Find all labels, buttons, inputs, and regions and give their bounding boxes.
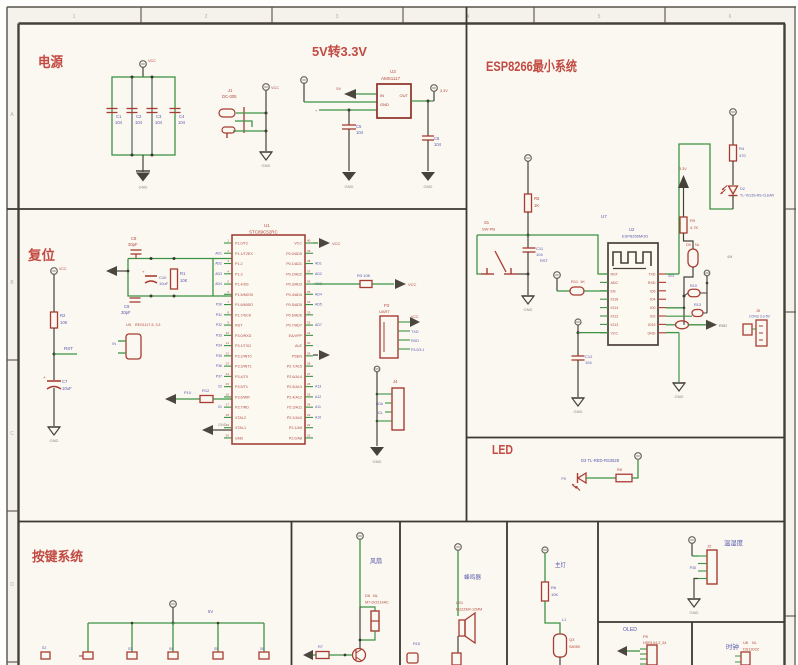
svg-text:R2: R2 xyxy=(60,313,66,318)
svg-text:C6: C6 xyxy=(434,136,440,141)
svg-text:4.7K: 4.7K xyxy=(690,225,699,230)
svg-text:P0.7/AD7: P0.7/AD7 xyxy=(286,324,302,328)
section divider vertical x=400 (fan/buzzer split) xyxy=(399,522,401,665)
svg-text:S2: S2 xyxy=(42,646,46,650)
svg-text:P2.4/A12: P2.4/A12 xyxy=(287,395,302,399)
svg-text:J1: J1 xyxy=(228,88,233,93)
power port VCC ESP reset pullup xyxy=(525,155,532,194)
svg-text:P1.0/T2: P1.0/T2 xyxy=(235,242,248,246)
svg-text:31: 31 xyxy=(307,331,311,335)
transistor U5 small part xyxy=(112,322,160,359)
buzzer LS1 xyxy=(459,613,475,643)
svg-text:17: 17 xyxy=(226,403,230,407)
wire regulator input net xyxy=(304,101,377,103)
wire J2 pin4 to ground xyxy=(694,579,698,599)
svg-text:按键系统: 按键系统 xyxy=(32,549,83,564)
wire capacitor bank to ground xyxy=(142,155,144,172)
svg-text:A12: A12 xyxy=(315,395,321,399)
wire buzzer to transistor xyxy=(457,636,459,653)
power port VCC small mid xyxy=(704,270,710,313)
svg-text:+: + xyxy=(43,376,46,381)
capacitor C5 xyxy=(342,124,364,135)
wire DC jack vertical to ground xyxy=(265,112,268,152)
svg-text:30pF: 30pF xyxy=(121,310,131,315)
svg-text:AD4: AD4 xyxy=(315,292,322,296)
svg-text:U6: U6 xyxy=(743,640,749,645)
svg-text:104: 104 xyxy=(356,130,364,135)
wire key drop 5 xyxy=(263,623,265,652)
svg-text:R13: R13 xyxy=(694,303,701,307)
svg-text:20: 20 xyxy=(226,433,230,437)
svg-text:SDA: SDA xyxy=(376,402,384,406)
svg-text:C1: C1 xyxy=(116,114,122,119)
svg-text:DS1302Z: DS1302Z xyxy=(743,648,760,652)
switch S4 xyxy=(168,647,178,659)
svg-text:AD4: AD4 xyxy=(215,282,222,286)
svg-text:蜂鸣器: 蜂鸣器 xyxy=(464,573,481,581)
svg-text:C11: C11 xyxy=(536,246,544,251)
svg-text:5V: 5V xyxy=(336,87,341,91)
connector P3 UART header xyxy=(379,303,410,358)
svg-text:D: D xyxy=(10,582,14,588)
ground under J4 xyxy=(370,447,384,464)
power port VCC at DC jack xyxy=(263,84,280,113)
svg-text:L1: L1 xyxy=(562,618,566,622)
svg-text:VCC: VCC xyxy=(59,267,67,271)
svg-text:NL: NL xyxy=(752,641,757,645)
ESP module right pin stubs xyxy=(658,274,674,333)
svg-text:C2: C2 xyxy=(136,114,142,119)
wire C5 to ground xyxy=(348,129,350,171)
svg-text:24: 24 xyxy=(307,403,311,407)
resistor R12 xyxy=(200,388,232,403)
svg-text:U5: U5 xyxy=(126,322,132,327)
svg-text:P37: P37 xyxy=(216,374,222,378)
connector J5 power select xyxy=(743,308,771,346)
wire key drop 3 xyxy=(172,623,174,652)
ground under DC jack xyxy=(260,152,272,168)
svg-text:P2.3/A11: P2.3/A11 xyxy=(287,406,302,410)
svg-text:复位: 复位 xyxy=(27,247,55,263)
power port VCC buzzer xyxy=(455,544,462,616)
power flag VCC reset chain xyxy=(51,267,67,312)
wire capacitor C6 branch xyxy=(427,101,429,136)
resistor R8 xyxy=(616,468,632,482)
svg-text:GND: GND xyxy=(345,184,354,189)
wire EN net to ESP module xyxy=(477,235,608,274)
ground under C12 xyxy=(572,398,584,414)
svg-text:1K: 1K xyxy=(534,203,539,208)
svg-text:P0.4/AD4: P0.4/AD4 xyxy=(286,293,302,297)
capacitor C3 xyxy=(147,109,163,126)
svg-text:P0.0/AD0: P0.0/AD0 xyxy=(286,252,302,256)
svg-text:15: 15 xyxy=(226,382,230,386)
svg-text:P2.2/A10: P2.2/A10 xyxy=(287,416,302,420)
svg-text:AD5: AD5 xyxy=(315,303,322,307)
resistor R11 xyxy=(570,279,585,295)
svg-text:P32: P32 xyxy=(216,323,222,327)
svg-text:VCC: VCC xyxy=(294,242,302,246)
svg-text:D6: D6 xyxy=(365,593,371,598)
svg-text:104: 104 xyxy=(178,120,186,125)
svg-text:P1.3: P1.3 xyxy=(235,272,243,276)
svg-text:P1.4/SS: P1.4/SS xyxy=(235,283,249,287)
wire DC jack pin 1 xyxy=(236,112,266,114)
svg-text:R7: R7 xyxy=(318,645,323,649)
svg-text:S5: S5 xyxy=(214,647,218,651)
capacitor C7 electrolytic xyxy=(43,354,72,391)
svg-text:IN: IN xyxy=(112,342,116,346)
wire ESP GND row to ground xyxy=(666,333,679,382)
svg-text:12: 12 xyxy=(226,351,230,355)
svg-text:U2: U2 xyxy=(629,227,635,232)
svg-text:J4: J4 xyxy=(393,379,398,384)
svg-text:P34: P34 xyxy=(216,344,222,348)
svg-text:AD2: AD2 xyxy=(215,262,222,266)
wire fan vertical xyxy=(359,607,362,648)
ground under C6 xyxy=(421,172,435,189)
capacitor C1 xyxy=(107,109,123,126)
wire LED D2 to staircase net xyxy=(732,196,734,210)
svg-text:TL-YEL5S-RS-CLEAR: TL-YEL5S-RS-CLEAR xyxy=(740,194,774,198)
wire R11 to ESP IO0 xyxy=(584,290,608,292)
svg-text:13: 13 xyxy=(226,362,230,366)
wire regulator output xyxy=(411,100,434,103)
wire R2 to node RST xyxy=(53,328,56,356)
wire loop to chip RST pin xyxy=(213,295,232,297)
svg-text:C3: C3 xyxy=(156,114,162,119)
connector P3 net labels xyxy=(411,330,424,352)
svg-text:P1.5/MOSI: P1.5/MOSI xyxy=(235,293,253,297)
svg-text:36: 36 xyxy=(307,280,311,284)
wire VCC branch down to C12 xyxy=(577,333,579,356)
section divider vertical x=598 (lamp/DHT split) xyxy=(597,522,599,665)
svg-text:P3.1/TXD: P3.1/TXD xyxy=(235,344,251,348)
section divider horizontal y=209 (power/reset split) xyxy=(7,208,467,210)
power port 3.3V arrow xyxy=(678,167,689,217)
svg-text:10K: 10K xyxy=(60,320,68,325)
section divider vertical x=291 (keys/fan split) xyxy=(291,522,293,665)
svg-text:AMS1117: AMS1117 xyxy=(381,76,401,81)
svg-text:34: 34 xyxy=(307,300,311,304)
svg-text:风扇: 风扇 xyxy=(370,556,382,565)
svg-text:21: 21 xyxy=(307,433,311,437)
connector J4 ISP header xyxy=(376,379,404,430)
svg-text:BUZZER-12MM: BUZZER-12MM xyxy=(456,608,482,612)
svg-text:C8: C8 xyxy=(131,236,137,241)
svg-text:R3 10K: R3 10K xyxy=(357,273,371,278)
svg-text:S4: S4 xyxy=(169,647,173,651)
section divider vertical x=692 (OLED/clock split) xyxy=(691,622,693,665)
svg-text:RST: RST xyxy=(611,273,619,277)
svg-text:P1.6/MISO: P1.6/MISO xyxy=(235,303,253,307)
wire key drop 1 xyxy=(87,623,89,652)
svg-text:5: 5 xyxy=(598,14,601,20)
wire loop to chip XTAL pin xyxy=(213,258,232,260)
ground under capacitor bank xyxy=(136,171,150,190)
wire R3 to VCC arrow xyxy=(372,279,417,289)
svg-text:IO14: IO14 xyxy=(611,306,619,310)
ground under ESP right xyxy=(673,383,685,399)
svg-text:XTAL1: XTAL1 xyxy=(235,426,246,430)
svg-text:GND: GND xyxy=(424,184,433,189)
svg-text:R4: R4 xyxy=(739,146,745,151)
svg-text:ALE: ALE xyxy=(295,344,303,348)
transistor Q3 lamp driver xyxy=(554,634,580,665)
svg-text:主灯: 主灯 xyxy=(555,561,566,569)
svg-text:3.3V: 3.3V xyxy=(440,89,448,93)
svg-text:1: 1 xyxy=(73,14,76,20)
svg-text:AD3: AD3 xyxy=(215,272,222,276)
svg-text:RXD: RXD xyxy=(411,339,419,343)
svg-text:11: 11 xyxy=(226,341,229,345)
wire LED D3 to resistor R8 xyxy=(586,477,616,479)
section divider horizontal y=622 (DHT/OLED split) xyxy=(598,621,785,623)
svg-text:39: 39 xyxy=(307,249,311,253)
svg-text:IO4: IO4 xyxy=(650,298,656,302)
capacitor C6 xyxy=(422,136,442,147)
wire R5 to EN net xyxy=(527,212,530,237)
resistor R13 xyxy=(666,303,707,317)
port arrow ALE xyxy=(313,350,330,360)
capacitor C10 electrolytic xyxy=(142,269,169,286)
svg-text:35: 35 xyxy=(307,290,311,294)
svg-text:ESP8266MOD: ESP8266MOD xyxy=(622,234,648,239)
resistor R5 xyxy=(525,194,541,212)
svg-text:GND: GND xyxy=(524,307,533,312)
right ruler tick marks xyxy=(785,209,796,616)
svg-text:C9: C9 xyxy=(124,304,130,309)
power port VCC LED section xyxy=(635,453,642,460)
power port VCC GPIO pullup xyxy=(554,272,570,291)
svg-text:S8050: S8050 xyxy=(569,645,580,649)
svg-text:VCC: VCC xyxy=(271,86,279,90)
svg-text:VCC: VCC xyxy=(408,282,417,287)
svg-text:P3.0/3.1: P3.0/3.1 xyxy=(411,348,424,352)
svg-text:R15: R15 xyxy=(413,642,420,646)
svg-text:GND: GND xyxy=(50,438,59,443)
svg-text:X1: X1 xyxy=(218,405,222,409)
svg-text:IO15: IO15 xyxy=(648,323,656,327)
svg-text:ESP8266最小系统: ESP8266最小系统 xyxy=(486,58,577,74)
resistor R4 xyxy=(730,145,747,161)
svg-text:VCC: VCC xyxy=(332,241,341,246)
svg-text:P3.3/INT1: P3.3/INT1 xyxy=(235,365,252,369)
svg-text:P10: P10 xyxy=(184,390,192,395)
switch S7 extra xyxy=(41,646,50,659)
svg-text:AD1: AD1 xyxy=(215,252,222,256)
wire C7 to ground xyxy=(53,388,55,426)
wire EA pin to resistor R3 xyxy=(313,283,360,285)
svg-text:LED: LED xyxy=(492,443,513,457)
svg-text:P0.5/AD5: P0.5/AD5 xyxy=(286,303,302,307)
capacitor C8 30pF xyxy=(128,236,142,259)
wire R6 to Q3 xyxy=(545,601,566,634)
switch S1 reset button xyxy=(481,220,517,274)
wire R9 to diode D5 xyxy=(684,233,694,249)
svg-text:LS1: LS1 xyxy=(456,600,464,605)
svg-text:P1.1/T2EX: P1.1/T2EX xyxy=(235,252,253,256)
wire OLED data with port arrow xyxy=(617,646,640,656)
svg-text:CON3 3.3-5V: CON3 3.3-5V xyxy=(749,315,771,319)
svg-text:2: 2 xyxy=(205,14,208,20)
svg-text:R9: R9 xyxy=(690,218,696,223)
svg-text:PSEN: PSEN xyxy=(292,354,302,358)
wire key drop 2 xyxy=(131,622,134,652)
svg-text:P2.1/A9: P2.1/A9 xyxy=(289,426,302,430)
svg-text:P1.2: P1.2 xyxy=(235,262,243,266)
svg-text:电源: 电源 xyxy=(38,54,63,70)
wire C6 to ground xyxy=(427,140,429,171)
svg-text:GND: GND xyxy=(648,331,656,335)
svg-text:25: 25 xyxy=(307,392,311,396)
resistor R15 buzzer base xyxy=(407,642,420,663)
svg-text:A13: A13 xyxy=(315,385,321,389)
op-amp U3 AMS1117-3.3 regulator xyxy=(377,69,411,118)
svg-text:RST: RST xyxy=(540,258,549,263)
svg-text:U7: U7 xyxy=(601,214,607,219)
svg-text:3.3V: 3.3V xyxy=(679,167,687,171)
svg-text:C4: C4 xyxy=(179,114,185,119)
svg-text:AD2: AD2 xyxy=(315,272,322,276)
capacitor C2 xyxy=(127,109,143,126)
section divider horizontal y=437 (ESP/LED split) xyxy=(467,437,785,439)
svg-text:P36: P36 xyxy=(216,364,222,368)
svg-text:RST: RST xyxy=(235,324,243,328)
svg-text:P33: P33 xyxy=(216,333,222,337)
svg-text:P5: P5 xyxy=(643,634,649,639)
svg-text:27: 27 xyxy=(307,372,311,376)
switch S5 xyxy=(213,647,223,659)
svg-text:104: 104 xyxy=(155,120,163,125)
diode D5 protection xyxy=(686,243,700,267)
svg-text:EN: EN xyxy=(611,289,616,293)
svg-text:P0: P0 xyxy=(561,477,566,481)
svg-text:104: 104 xyxy=(536,252,543,257)
svg-text:IO12: IO12 xyxy=(611,315,619,319)
capacitor C12 xyxy=(572,354,594,365)
power port 3.3V output xyxy=(431,85,449,101)
svg-text:14: 14 xyxy=(226,372,230,376)
svg-text:VCC: VCC xyxy=(148,59,156,63)
svg-text:OUT: OUT xyxy=(400,93,409,98)
ground under reset button xyxy=(522,296,534,312)
svg-text:GND: GND xyxy=(380,102,389,107)
svg-text:23: 23 xyxy=(307,413,311,417)
svg-text:NL: NL xyxy=(695,243,700,247)
svg-text:P3.4/T0: P3.4/T0 xyxy=(235,375,248,379)
port arrow TXD right xyxy=(706,320,727,330)
svg-text:10K: 10K xyxy=(180,278,188,283)
svg-text:SCL: SCL xyxy=(376,411,383,415)
svg-text:A11: A11 xyxy=(315,405,321,409)
LED D2 indicator xyxy=(721,186,775,198)
svg-text:P3.6/WR: P3.6/WR xyxy=(235,395,250,399)
svg-text:P1.7/SCK: P1.7/SCK xyxy=(235,313,252,317)
wire capacitor C5 branch xyxy=(348,110,350,125)
svg-text:5V: 5V xyxy=(208,609,213,614)
svg-text:P0.1/AD1: P0.1/AD1 xyxy=(286,262,302,266)
power port VCC regulator input xyxy=(301,77,308,102)
resistor R1 xyxy=(171,269,188,289)
svg-text:D3 TL-RED-RS3528: D3 TL-RED-RS3528 xyxy=(581,458,620,463)
port arrow VCC at chip pin 40 xyxy=(313,238,341,248)
svg-text:30pF: 30pF xyxy=(128,242,138,247)
svg-text:RXD: RXD xyxy=(648,281,656,285)
op-amp U6 DS1302 label xyxy=(743,640,760,652)
svg-text:10uF: 10uF xyxy=(159,281,169,286)
svg-text:P31: P31 xyxy=(216,313,222,317)
svg-text:XTAL2: XTAL2 xyxy=(235,416,246,420)
svg-text:NL: NL xyxy=(373,593,379,598)
svg-text:P2.6/A14: P2.6/A14 xyxy=(287,375,302,379)
left ruler tick marks xyxy=(7,112,18,662)
wire capacitor bank loop xyxy=(112,76,175,157)
svg-text:GND: GND xyxy=(574,409,583,414)
chip right net labels xyxy=(315,262,322,420)
svg-text:IO13: IO13 xyxy=(611,323,619,327)
svg-text:19: 19 xyxy=(226,423,230,427)
svg-text:C12: C12 xyxy=(585,354,593,359)
ESP module left pin stubs xyxy=(600,274,608,333)
port arrow 5V input xyxy=(336,87,377,99)
svg-text:P35: P35 xyxy=(690,566,696,570)
svg-text:10: 10 xyxy=(226,331,230,335)
svg-text:P2.0/A8: P2.0/A8 xyxy=(289,436,302,440)
wire IO2 row xyxy=(666,296,685,325)
svg-text:IO2: IO2 xyxy=(650,315,656,319)
svg-text:30: 30 xyxy=(307,341,311,345)
wire EN net down to switch xyxy=(477,235,481,274)
power port VCC fan xyxy=(357,533,364,607)
resistor R14 on TX line xyxy=(666,321,706,329)
svg-text:时钟: 时钟 xyxy=(726,642,740,651)
svg-text:5V转3.3V: 5V转3.3V xyxy=(312,44,367,59)
diode D6 label xyxy=(365,593,389,605)
connector P5 OLED header label xyxy=(643,634,666,645)
switch S3 xyxy=(127,647,137,659)
svg-text:P3.5/T1: P3.5/T1 xyxy=(235,385,248,389)
svg-text:D2: D2 xyxy=(740,187,745,191)
wire C12 to ground xyxy=(577,360,579,397)
wire R7 to Q1 xyxy=(329,654,352,657)
svg-text:GND: GND xyxy=(690,610,699,615)
transistor Q2 buzzer driver xyxy=(452,653,461,665)
svg-text:S3: S3 xyxy=(128,647,132,651)
port arrow ground left of crystal loop xyxy=(106,266,129,276)
wire key drop 4 xyxy=(217,622,220,652)
svg-text:U1: U1 xyxy=(264,223,270,228)
svg-text:P0.6/AD6: P0.6/AD6 xyxy=(286,313,302,317)
power port VCC key bus xyxy=(170,601,177,625)
svg-text:P0.3/AD3: P0.3/AD3 xyxy=(286,283,302,287)
svg-text:VCC: VCC xyxy=(611,331,619,335)
svg-text:RXD: RXD xyxy=(719,324,727,328)
svg-text:OLED: OLED xyxy=(623,627,637,633)
svg-text:P3.2/INT0: P3.2/INT0 xyxy=(235,354,252,358)
svg-text:UART: UART xyxy=(379,309,390,314)
svg-text:IO16: IO16 xyxy=(611,298,619,302)
section divider horizontal y=521 (bottom row split) xyxy=(19,521,785,523)
svg-text:IO5: IO5 xyxy=(650,289,656,293)
svg-text:C5: C5 xyxy=(356,124,362,129)
svg-text:RST: RST xyxy=(64,346,73,351)
ground under C5 xyxy=(342,172,356,189)
wire DC jack pin 2 xyxy=(235,121,252,127)
svg-text:R6: R6 xyxy=(551,585,557,590)
resistor R10 xyxy=(684,284,707,297)
svg-text:S6: S6 xyxy=(260,647,264,651)
